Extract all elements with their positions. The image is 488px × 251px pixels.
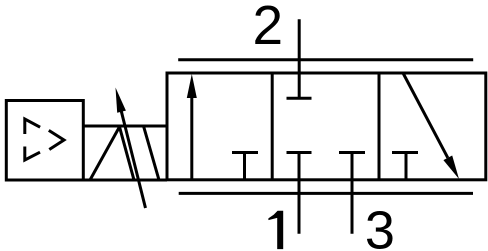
top rail line: [178, 58, 473, 61]
port 2 line: [298, 19, 301, 98]
triangle symbol top-left corner stroke: [25, 119, 40, 134]
spring segment 1: [90, 127, 120, 180]
spring box bottom line: [83, 179, 167, 182]
pilot actuator box: [6, 101, 83, 181]
valve body outline: [167, 73, 486, 180]
flow path diagonal arrow shaft: [403, 73, 448, 158]
port 1 label: [268, 211, 283, 249]
bottom rail line: [179, 192, 473, 195]
blocked port T right section: [392, 153, 418, 180]
spring segment 2: [120, 127, 135, 180]
blocked port T left section: [232, 153, 258, 180]
triangle symbol right chevron: [49, 130, 64, 149]
port 1 blocked T cap: [287, 151, 312, 154]
port 3 line: [351, 153, 354, 234]
flow path up arrow shaft: [190, 95, 193, 180]
section divider 2: [378, 73, 381, 180]
svg-text:2: 2: [253, 0, 284, 56]
flow path up arrow head: [187, 74, 197, 98]
adjustment arrow shaft: [121, 111, 145, 208]
spring segment 3: [144, 126, 160, 180]
adjustment arrow head: [116, 88, 126, 113]
port 3 blocked T cap: [339, 151, 365, 154]
port 1 line: [298, 153, 301, 234]
flow path diagonal arrow head: [443, 156, 459, 180]
spring box top line: [83, 125, 167, 128]
port 2 blocked T cap: [287, 97, 312, 100]
svg-text:3: 3: [365, 201, 395, 251]
triangle symbol bottom-left corner stroke: [25, 147, 40, 161]
section divider 1: [271, 73, 274, 180]
